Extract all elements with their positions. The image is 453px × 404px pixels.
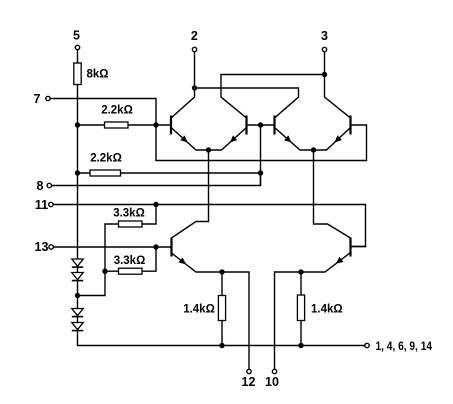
svg-text:2.2kΩ: 2.2kΩ	[90, 153, 122, 165]
svg-text:2.2kΩ: 2.2kΩ	[101, 105, 133, 117]
svg-text:3: 3	[321, 29, 328, 43]
svg-text:12: 12	[242, 375, 256, 389]
svg-text:11: 11	[35, 198, 48, 212]
svg-text:2: 2	[191, 29, 198, 43]
svg-text:3.3kΩ: 3.3kΩ	[113, 208, 145, 220]
svg-text:1.4kΩ: 1.4kΩ	[311, 304, 343, 316]
svg-text:1, 4, 6, 9, 14: 1, 4, 6, 9, 14	[376, 339, 433, 353]
svg-text:10: 10	[265, 375, 279, 389]
svg-text:13: 13	[35, 240, 49, 254]
svg-text:8: 8	[37, 179, 44, 193]
svg-text:7: 7	[34, 92, 41, 106]
svg-text:8kΩ: 8kΩ	[87, 69, 109, 81]
svg-text:3.3kΩ: 3.3kΩ	[114, 255, 146, 267]
svg-text:5: 5	[73, 29, 80, 43]
svg-text:1.4kΩ: 1.4kΩ	[183, 304, 215, 316]
